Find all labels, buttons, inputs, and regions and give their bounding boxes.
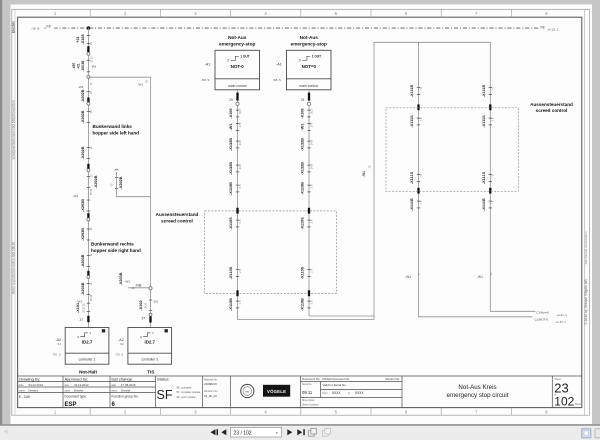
svg-text:Drexler: Drexler — [121, 389, 130, 393]
svg-text:Serial No.: Serial No. — [302, 383, 312, 386]
text screed control right — [530, 102, 573, 113]
svg-text:C1/NOT-0: C1/NOT-0 — [535, 318, 549, 322]
connector X203B b — [81, 227, 93, 241]
svg-text:29: 29 — [229, 98, 233, 102]
cable W1 left of loop — [362, 165, 371, 177]
cable W1 top — [90, 56, 96, 69]
circle above controller 3 — [149, 313, 152, 316]
connector circles left wire — [87, 52, 90, 55]
bus F8 dash-dot emergency stop line — [32, 24, 541, 30]
svg-text:-W1: -W1 — [362, 171, 366, 177]
thick cable marks left wire — [87, 46, 89, 52]
toolbar — [0, 424, 600, 426]
svg-text:-X132B: -X132B — [229, 162, 233, 175]
svg-text:-X106: -X106 — [229, 108, 233, 118]
connector X111S on wire 418.5 — [410, 171, 423, 184]
connector X110B on wire 309.0 — [301, 182, 314, 195]
wire branch top horizontal — [88, 77, 150, 288]
svg-text:-W1: -W1 — [78, 85, 84, 89]
nav last page button — [297, 429, 305, 435]
nav next button — [287, 429, 292, 435]
svg-text:24 B: 24 B — [239, 140, 242, 145]
svg-text:-A2: -A2 — [118, 338, 124, 342]
svg-text:main control: main control — [228, 84, 247, 88]
title block texts — [19, 377, 582, 409]
svg-text:▸/-22. 1: ▸/-22. 1 — [549, 28, 559, 32]
svg-text:-X203B: -X203B — [81, 199, 85, 212]
connector X110B on wire 237.5 — [229, 182, 242, 195]
svg-text:-X111S: -X111S — [410, 171, 414, 184]
svg-text:7 8: 7 8 — [492, 117, 495, 121]
logo voegele — [263, 385, 290, 397]
svg-text:3135: 3135 — [145, 302, 148, 308]
svg-text:▸/-24. 1: ▸/-24. 1 — [558, 313, 568, 317]
svg-text:+21: +21 — [76, 63, 80, 69]
svg-text:/68. 5: /68. 5 — [202, 78, 210, 82]
op module U2 NOT=0 — [273, 35, 331, 90]
svg-text:/70. 3: /70. 3 — [53, 352, 61, 356]
wire2 bottom run — [309, 315, 374, 317]
svg-text:-X110S: -X110S — [301, 217, 305, 230]
controller A2 controller 3 — [115, 328, 171, 365]
svg-text:-X110B: -X110B — [301, 182, 305, 195]
svg-text:hopper side left hand: hopper side left hand — [93, 131, 140, 136]
svg-text:Approved by:: Approved by: — [65, 377, 89, 382]
connector X202B hook — [110, 176, 122, 189]
svg-text:controller 3: controller 3 — [141, 358, 158, 362]
bus junction node — [87, 26, 91, 30]
wire left main branch — [87, 28, 89, 327]
connector X111B on wire 490.3 — [482, 198, 495, 211]
svg-text:-W1: -W1 — [153, 300, 159, 304]
svg-text:7 8: 7 8 — [420, 174, 423, 178]
svg-text:Sheet: Sheet — [575, 403, 582, 406]
svg-text:Schutzvermerk nach ISO 16016 b: Schutzvermerk nach ISO 16016 beachten — [11, 100, 15, 159]
svg-text:Refer to protection notice ISO: Refer to protection notice ISO 16016 — [11, 242, 15, 294]
connector X111S on wire 490.3 — [482, 171, 495, 184]
svg-text:-X203B: -X203B — [119, 272, 123, 285]
svg-text:-X202B: -X202B — [81, 146, 85, 159]
svg-text:E - CAE: E - CAE — [19, 395, 31, 399]
dashed enclosure screed control middle — [205, 211, 337, 294]
svg-text:2 B: 2 B — [239, 184, 242, 188]
svg-text:Sheet plant: Sheet plant — [302, 399, 315, 402]
connector circle X08 — [149, 287, 152, 290]
connector X110S on wire 237.5 — [229, 217, 242, 230]
svg-text:24 B: 24 B — [310, 140, 313, 145]
svg-text:24 B: 24 B — [239, 164, 242, 169]
svg-text:7 8: 7 8 — [492, 200, 495, 204]
connector X111B on wire 418.5 — [410, 198, 423, 211]
svg-text:SF: norm release: SF: norm release — [177, 396, 197, 399]
svg-text:10 20: 10 20 — [90, 56, 93, 63]
svg-text:-X111B: -X111B — [482, 198, 486, 211]
svg-text:3735 38: 3735 38 — [83, 303, 86, 313]
svg-text:Not-Halt: Not-Halt — [79, 370, 97, 375]
svg-text:2 B: 2 B — [310, 184, 313, 188]
wire below U2 — [308, 90, 310, 102]
svg-text:Document No.: Document No. — [302, 377, 321, 381]
connector X110B on wire 237.5 — [229, 298, 242, 311]
svg-text:01_00_02: 01_00_02 — [204, 394, 217, 398]
svg-text:-X168: -X168 — [81, 34, 85, 44]
svg-text:name: name — [19, 390, 26, 393]
svg-text:-X110S: -X110S — [229, 266, 233, 279]
svg-text:-X110B: -X110B — [229, 182, 233, 195]
next view icon — [323, 428, 331, 436]
cable W1 bottom left — [405, 272, 421, 279]
toolbar faint mark bottom left — [4, 429, 8, 434]
cable W1 label mid — [73, 188, 94, 198]
svg-text:-X111B: -X111B — [482, 85, 486, 98]
svg-text:▾: ▾ — [276, 431, 278, 435]
svg-text:-X202B: -X202B — [81, 110, 85, 123]
connector X203B c — [81, 253, 93, 267]
svg-text:X2: X2 — [120, 342, 124, 346]
svg-text:-X202B: -X202B — [81, 89, 85, 102]
text hopper left hand — [93, 124, 140, 135]
svg-text:-X102: -X102 — [139, 300, 143, 310]
connector X132B on wire 309.0 — [301, 138, 314, 151]
svg-text:VÖGELE: VÖGELE — [267, 389, 286, 394]
svg-text:30 2: 30 2 — [239, 108, 242, 113]
svg-text:Aussensteuerstand: Aussensteuerstand — [156, 212, 199, 217]
svg-text:date: date — [64, 384, 69, 387]
svg-text:34: 34 — [301, 98, 305, 102]
svg-text:TIS: TIS — [147, 370, 154, 375]
svg-text:-A1: -A1 — [205, 62, 211, 66]
svg-text:2 B: 2 B — [310, 300, 313, 304]
cable W1 label 14 — [78, 82, 93, 89]
connector X110S on wire 237.5 — [229, 266, 242, 279]
svg-text:Version No.: Version No. — [385, 377, 400, 381]
thick mark above controller 3 — [149, 316, 151, 322]
connector W1 on wire 237.5 — [229, 123, 242, 131]
svg-text:SF: SF — [157, 388, 173, 402]
svg-text:1B: 1B — [132, 287, 135, 290]
pin ticks branch wires — [115, 178, 152, 311]
svg-text:23 / 102: 23 / 102 — [234, 431, 252, 437]
svg-text:NOT-0: NOT-0 — [231, 64, 244, 69]
svg-text:Drawing by:: Drawing by: — [19, 377, 40, 382]
svg-text:-X101: -X101 — [76, 303, 80, 313]
connector X102 — [139, 300, 159, 311]
svg-text:main control: main control — [300, 84, 319, 88]
connector X110B on wire 309.0 — [301, 298, 314, 311]
connector X110S on wire 309.0 — [301, 266, 314, 279]
connector X202B b — [81, 110, 93, 123]
single page icon — [582, 429, 591, 438]
svg-text:date: date — [111, 384, 116, 387]
svg-text:-SX168: -SX168 — [81, 60, 85, 71]
dashed enclosure screed control right — [386, 108, 518, 192]
svg-text:-W1: -W1 — [77, 299, 83, 303]
svg-text:0: 0 — [299, 59, 301, 63]
svg-text:-W1: -W1 — [229, 124, 233, 131]
svg-text:-X97: -X97 — [72, 62, 76, 69]
svg-text:X08: X08 — [136, 283, 142, 287]
cable W1 at branch — [138, 80, 149, 87]
svg-text:7 8: 7 8 — [420, 117, 423, 121]
svg-text:37: 37 — [142, 317, 146, 321]
svg-text:▸/-24. 1: ▸/-24. 1 — [557, 320, 567, 324]
connector X111S on wire 490.3 — [482, 115, 495, 128]
svg-text:/72. 3: /72. 3 — [115, 352, 123, 356]
svg-text:102: 102 — [554, 395, 574, 409]
svg-text:24 B: 24 B — [310, 164, 313, 169]
svg-text:Bunkerwand rechts: Bunkerwand rechts — [91, 242, 134, 247]
svg-text:ID2.7: ID2.7 — [145, 340, 156, 345]
svg-text:-W1: -W1 — [405, 275, 411, 279]
svg-text:Drexler: Drexler — [74, 389, 83, 393]
svg-text:2 B: 2 B — [310, 219, 313, 223]
connector X132B on wire 237.5 — [229, 138, 242, 151]
svg-text:AE: complete: AE: complete — [177, 386, 192, 389]
connector X168 — [76, 34, 93, 45]
cable W1 bottom right — [477, 272, 493, 279]
svg-text:-W1: -W1 — [73, 194, 79, 198]
ruler ticks — [90, 9, 511, 415]
svg-text:PF: runstatus release: PF: runstatus release — [177, 391, 201, 394]
svg-text:-X111S: -X111S — [410, 115, 414, 128]
pin ticks left wire — [87, 35, 90, 311]
logo wirtgen group — [241, 384, 254, 397]
svg-text:0: 0 — [227, 59, 229, 63]
svg-text:-W1: -W1 — [91, 65, 97, 69]
title block — [18, 376, 582, 408]
svg-text:22068216: 22068216 — [204, 382, 217, 386]
svg-text:Not-Aus Kreis: Not-Aus Kreis — [458, 384, 496, 391]
svg-text:XXXX: XXXX — [332, 391, 341, 395]
svg-text:Document type:: Document type: — [65, 394, 87, 398]
svg-text:Material No.: Material No. — [204, 379, 218, 382]
text screed control middle — [156, 212, 199, 223]
connector W1 on wire 309.0 — [301, 123, 314, 131]
controller A2 controller 2 — [53, 328, 109, 365]
connector X203B a — [81, 199, 85, 212]
wire under module x=309.0 — [308, 105, 310, 316]
svg-text:-X111B: -X111B — [410, 85, 414, 98]
page number box — [231, 427, 282, 437]
svg-text:36 38: 36 38 — [90, 188, 93, 195]
svg-text:7 8: 7 8 — [492, 174, 495, 178]
svg-text:Status:: Status: — [157, 377, 169, 382]
svg-text:-X106: -X106 — [301, 108, 305, 118]
svg-text:-X111S: -X111S — [482, 115, 486, 128]
wire to controller 3 — [150, 290, 152, 328]
svg-text:date: date — [19, 384, 24, 387]
svg-text:-X110B: -X110B — [229, 298, 233, 311]
wire below U1 — [237, 90, 239, 102]
node X08 — [128, 283, 151, 290]
bus right cross reference — [541, 26, 559, 32]
svg-text:04.12.2012: 04.12.2012 — [29, 383, 44, 387]
svg-text:1 OUT: 1 OUT — [312, 54, 321, 58]
svg-text:-W1: -W1 — [301, 124, 305, 131]
svg-text:Partial Document No.: Partial Document No. — [323, 377, 351, 381]
svg-text:-X110B: -X110B — [301, 298, 305, 311]
svg-text:Not-Aus: Not-Aus — [228, 35, 247, 40]
svg-text:Drexler: Drexler — [29, 389, 38, 393]
svg-text:last change:: last change: — [112, 377, 134, 382]
window left edge — [0, 0, 2, 425]
connector X111S on wire 418.5 — [410, 115, 423, 128]
svg-text:-A1: -A1 — [276, 62, 282, 66]
wire X111B branch — [419, 42, 533, 317]
svg-text:X1: X1 — [57, 342, 61, 346]
svg-text:-X203B: -X203B — [81, 254, 85, 267]
svg-text:Aussensteuerstand: Aussensteuerstand — [530, 102, 573, 107]
svg-text:7 8: 7 8 — [420, 200, 423, 204]
connector X132B on wire 309.0 — [301, 162, 314, 175]
connector SX168 — [72, 60, 85, 71]
svg-text:09 11: 09 11 — [302, 390, 313, 395]
svg-text:37: 37 — [80, 318, 84, 322]
svg-text:emergency stop circuit: emergency stop circuit — [447, 392, 509, 399]
svg-text:17N: 17N — [310, 123, 313, 128]
svg-text:23: 23 — [554, 380, 568, 395]
prev view icon — [309, 428, 317, 436]
svg-text:screed control: screed control — [161, 219, 193, 224]
svg-text:Electric: Electric — [11, 21, 15, 33]
svg-text:F8: F8 — [541, 26, 545, 30]
svg-text:-X111S: -X111S — [482, 171, 486, 184]
svg-text:-X203B: -X203B — [81, 282, 85, 295]
svg-text:-X132B: -X132B — [301, 162, 305, 175]
wire hook branch — [117, 172, 151, 197]
svg-text:31.12.2012: 31.12.2012 — [74, 383, 89, 387]
hook terminal — [115, 169, 119, 170]
svg-text:17N: 17N — [239, 123, 242, 128]
svg-text:Function group No.: Function group No. — [112, 394, 139, 398]
svg-text:F8: F8 — [47, 24, 51, 28]
connector X110S on wire 309.0 — [301, 217, 314, 230]
wire under module x=237.5 — [237, 105, 239, 319]
svg-text:36 38: 36 38 — [90, 294, 93, 301]
text hopper right hand — [91, 242, 141, 253]
svg-text:-X111B: -X111B — [410, 198, 414, 211]
svg-text:2 B: 2 B — [239, 300, 242, 304]
wire1 bottom run — [238, 319, 375, 321]
svg-text:Alle Rechte vorbehalten: Alle Rechte vorbehalten — [584, 231, 588, 264]
svg-text:-X203B: -X203B — [81, 228, 85, 241]
svg-text:30 2: 30 2 — [310, 108, 313, 113]
svg-text:emergency-stop: emergency-stop — [219, 41, 255, 46]
svg-text:ID2.7: ID2.7 — [82, 340, 93, 345]
svg-text:/68. 5: /68. 5 — [273, 78, 281, 82]
connector X111B on wire 490.3 — [482, 85, 495, 98]
svg-text:-A2: -A2 — [55, 338, 61, 342]
connector X202B c — [81, 146, 93, 159]
svg-text:C1/Not+0: C1/Not+0 — [536, 310, 549, 314]
svg-text:17.08.2015: 17.08.2015 — [121, 383, 136, 387]
connector X202B a — [81, 89, 93, 102]
svg-text:XXXX: XXXX — [355, 391, 364, 395]
svg-text:-X202B: -X202B — [94, 175, 98, 188]
svg-text:Revision No.: Revision No. — [204, 390, 218, 393]
svg-text:1 OUT: 1 OUT — [240, 54, 249, 58]
partial icon right edge — [595, 429, 600, 438]
svg-text:emergency-stop: emergency-stop — [291, 41, 327, 46]
svg-text:-X202B: -X202B — [119, 176, 123, 189]
svg-text:Not-Aus: Not-Aus — [300, 35, 319, 40]
svg-text:© 2012 by Joseph Vögele AG: © 2012 by Joseph Vögele AG — [584, 279, 588, 325]
svg-text:7 8: 7 8 — [492, 87, 495, 91]
svg-text:/18. B: /18. B — [32, 27, 40, 31]
connector X111B on wire 418.5 — [410, 85, 423, 98]
svg-text:ESP: ESP — [65, 402, 77, 408]
svg-text:WG: WG — [246, 391, 250, 393]
svg-text:+21: +21 — [76, 36, 80, 42]
svg-text:2 B: 2 B — [239, 269, 242, 273]
svg-text:Bunkerwand links: Bunkerwand links — [93, 124, 133, 129]
svg-text:Valid for Serial No.: Valid for Serial No. — [323, 383, 347, 387]
left strip divider — [14, 9, 16, 415]
connector X101 — [76, 303, 85, 313]
svg-text:NOT=0: NOT=0 — [302, 64, 317, 69]
svg-text:from: from — [323, 391, 328, 395]
nav first page button — [211, 429, 219, 435]
svg-text:-X110S: -X110S — [301, 266, 305, 279]
connector X132B on wire 237.5 — [229, 162, 242, 175]
svg-text:-W1: -W1 — [125, 280, 131, 284]
svg-text:hopper side right hand: hopper side right hand — [91, 248, 141, 253]
right loop top — [374, 42, 536, 319]
svg-text:Sheet Location: Sheet Location — [302, 404, 319, 407]
cable W1 label low — [77, 294, 94, 303]
ruler column numbers top — [54, 11, 548, 414]
svg-text:controller 2: controller 2 — [79, 358, 96, 362]
svg-text:2 B: 2 B — [310, 269, 313, 273]
svg-text:7 8: 7 8 — [420, 87, 423, 91]
nav prev button — [221, 429, 226, 435]
svg-text:name: name — [64, 390, 71, 393]
svg-text:screed control: screed control — [536, 108, 568, 113]
connector X106 on wire 309.0 — [301, 108, 314, 118]
connector X106 on wire 237.5 — [229, 108, 242, 118]
connector X203B d — [81, 282, 93, 295]
op module U1 NOT-0 — [202, 35, 260, 90]
connector X202B d right side — [91, 174, 98, 188]
svg-text:-X132B: -X132B — [301, 138, 305, 151]
svg-text:-W1: -W1 — [477, 275, 483, 279]
svg-text:name: name — [111, 390, 118, 393]
svg-text:-W1: -W1 — [138, 83, 144, 87]
svg-text:-X110S: -X110S — [229, 217, 233, 230]
svg-text:1B: 1B — [368, 165, 371, 168]
svg-text:-X132B: -X132B — [229, 138, 233, 151]
svg-text:2 B: 2 B — [239, 219, 242, 223]
